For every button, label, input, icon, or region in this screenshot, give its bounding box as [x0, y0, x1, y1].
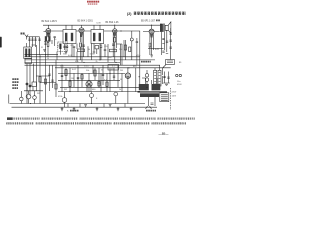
red watermark line1: [87, 1, 99, 3]
ground row under bottom bus: [61, 107, 64, 111]
output transformer windings: [160, 24, 163, 32]
power transformer secondary winding: [152, 84, 161, 90]
footnote line1: [7, 117, 195, 120]
ground bottom b: [109, 105, 112, 107]
resistor R13: [39, 77, 41, 83]
tone network box: [108, 65, 119, 71]
capacitor C4: [38, 37, 40, 43]
tube V1 6A2 converter: [46, 29, 51, 34]
tube pin funnel V1: [47, 33, 50, 37]
resistor R6: [65, 70, 67, 76]
wire V2 center pin: [81, 42, 83, 62]
wire rail drop V4: [151, 25, 153, 29]
resistor R12: [129, 47, 131, 52]
oscillator coil winding: [59, 44, 61, 50]
ground V4 cathode: [150, 55, 153, 57]
wire IFT1 pins down: [66, 44, 72, 57]
bus AVC line1: [25, 54, 59, 56]
resistor R2: [80, 43, 82, 47]
junction dots: [29, 25, 152, 104]
tube V4 6P1 output: [149, 29, 154, 34]
ground IFT2: [93, 52, 96, 54]
capacitor C5 below V1: [44, 40, 46, 55]
bus tie stubs: [68, 104, 125, 108]
capacitor C18: [100, 44, 102, 60]
wire left feed: [36, 43, 40, 55]
bus bottom line2: [12, 106, 158, 108]
electrolytic C14: [163, 72, 165, 84]
bus line5: [25, 64, 161, 66]
wire L1 to bus: [27, 45, 36, 104]
resistor R9: [78, 49, 85, 52]
filter choke tall winding b: [158, 70, 161, 86]
tube V3 6N2 detector: [113, 29, 117, 33]
ground bottom a: [84, 105, 87, 107]
trimmer capacitor C2: [31, 37, 33, 43]
footnote line2: [6, 122, 186, 125]
tube V5 pins: [87, 73, 91, 91]
potentiometer W1 volume: [26, 94, 31, 99]
resistor R7: [94, 70, 96, 76]
voltage selector box: [160, 93, 169, 102]
antenna coil L1 winding b: [28, 49, 30, 58]
capacitor C16: [104, 44, 106, 57]
capacitor C12: [77, 78, 79, 79]
capacitor C6: [83, 42, 85, 57]
wire antenna top bus: [27, 36, 40, 38]
bus B+ line: [55, 67, 171, 69]
capacitor C13b: [113, 76, 115, 77]
oscillator capacitor: [63, 44, 65, 50]
power plug: [149, 97, 156, 106]
mains switch: [146, 106, 152, 109]
tube V2 6K4 IF amplifier: [79, 28, 84, 33]
antenna coil L1 box: [24, 47, 32, 59]
power transformer primary winding: [139, 84, 149, 90]
IF transformer IFT1 box: [63, 30, 76, 44]
IF transformer IFT2 box: [91, 30, 104, 44]
coil L2 box: [25, 59, 32, 64]
resistor R11: [124, 45, 126, 50]
capacitor row under IFT1: [66, 47, 75, 57]
trimmer capacitor C3: [34, 37, 36, 43]
terminal circle minus: [179, 74, 181, 76]
IFT1 winding a: [65, 33, 67, 41]
wire IFT2 top: [94, 25, 100, 29]
red watermark line2: [88, 3, 98, 5]
resistor R10: [95, 46, 99, 49]
audio coupling verticals: [62, 65, 122, 91]
resistor R4: [149, 43, 151, 47]
capacitor C17: [136, 38, 138, 65]
wire rail drop V2: [81, 25, 83, 28]
wire choke tops: [155, 65, 160, 70]
tube pin funnel V3: [113, 33, 116, 37]
left audio component band: [36, 65, 56, 91]
resistor R7c: [98, 82, 100, 87]
tube V1 pins: [44, 31, 64, 40]
wire speaker drops: [161, 24, 167, 55]
tube V5 6N2 triode: [86, 81, 92, 87]
small pot circle mid: [114, 92, 118, 96]
wire rail drop output transformer: [160, 24, 162, 26]
capacitor C20: [51, 80, 53, 81]
ground pad: [43, 50, 46, 52]
wire V1 grid: [44, 40, 52, 44]
wire IFT1 top: [66, 25, 72, 29]
ground electrolytics: [163, 83, 170, 85]
bus audio line a: [58, 72, 125, 74]
resistor R6c: [81, 75, 83, 80]
tube pin funnel V4: [150, 34, 153, 38]
oscillator shield box: [58, 42, 68, 52]
bus lower line: [58, 91, 140, 93]
transformer lower winding: [140, 93, 159, 97]
capacitor C8b: [162, 51, 168, 54]
capacitor C11: [61, 76, 63, 77]
ground IFT1: [65, 52, 68, 54]
wire V6 top: [127, 68, 129, 73]
wire top plate rail: [43, 24, 161, 26]
scan shadow left edge: [0, 37, 2, 48]
switch contacts S1: [26, 83, 29, 86]
resistor R6b: [69, 81, 71, 87]
wire rail drop V3: [114, 25, 116, 29]
wire crossover: [148, 47, 164, 49]
bus bottom line1: [10, 103, 146, 105]
trimmer capacitor C1 row: [28, 37, 30, 43]
resistor R3 below V3: [114, 38, 116, 43]
antenna: [25, 35, 28, 40]
terminal circle plus: [176, 74, 178, 76]
bus audio line b: [58, 79, 120, 81]
tube V6 pins: [128, 68, 140, 104]
jack small circle: [130, 38, 133, 41]
switch box S1: [32, 82, 37, 87]
jack J1 circles: [145, 74, 148, 77]
tube pin funnel V2: [80, 33, 83, 37]
wire right B+ chain: [170, 28, 172, 60]
tube V6 6Z4 rectifier: [125, 73, 130, 78]
capacitor C8 tone: [162, 39, 168, 44]
electrolytic C15: [167, 72, 169, 84]
antenna coil L1 winding a: [25, 49, 27, 58]
resistor R15: [55, 84, 57, 89]
wire drop x140: [132, 31, 140, 87]
resistor R7b: [106, 82, 108, 87]
capacitor C7: [112, 41, 114, 57]
capacitor C9 ticks: [170, 33, 172, 48]
wire coil drops: [27, 43, 36, 47]
IFT2 winding b: [99, 33, 101, 41]
bus audio line c: [60, 86, 140, 88]
choke box right: [166, 60, 175, 65]
transformer core lines: [138, 91, 168, 92]
bus line2: [25, 56, 141, 58]
tube V2 pins: [76, 31, 91, 42]
capacitor C13: [102, 75, 104, 76]
tube V3 pins: [104, 31, 123, 41]
oscillator coil dark windings: [45, 36, 47, 41]
potentiometer W3 tone: [90, 94, 94, 98]
label values scatter: [47, 45, 122, 81]
IFT2 winding a: [93, 33, 95, 41]
resistor R14: [44, 79, 46, 84]
speaker: [165, 22, 171, 33]
wire rail drop V1: [47, 25, 49, 28]
input jack circle: [20, 97, 24, 101]
midband extra drops: [57, 40, 124, 65]
resistor R8 horizontal: [110, 49, 117, 52]
wire switch bus: [24, 85, 43, 90]
bus line3: [25, 59, 156, 61]
wire bottom-left risers: [9, 55, 56, 104]
wire V3 right pin: [116, 41, 122, 48]
wire choke down: [163, 65, 167, 76]
dashed line chassis right: [170, 88, 172, 110]
IFT1 winding b: [71, 33, 73, 41]
bus line4: [25, 61, 121, 63]
potentiometer W2: [62, 98, 67, 103]
resistor R1 below V1: [47, 43, 49, 47]
potentiometer W1b: [33, 96, 37, 100]
wire IFT2 pins: [94, 44, 100, 60]
diode load chain: [122, 40, 126, 65]
label antenna: [21, 33, 26, 35]
capacitor C19: [48, 74, 50, 75]
tube V4 pins: [143, 32, 160, 42]
wire transformer leads: [142, 76, 163, 84]
padder capacitor: [54, 37, 56, 47]
filter choke tall winding a: [154, 70, 157, 86]
